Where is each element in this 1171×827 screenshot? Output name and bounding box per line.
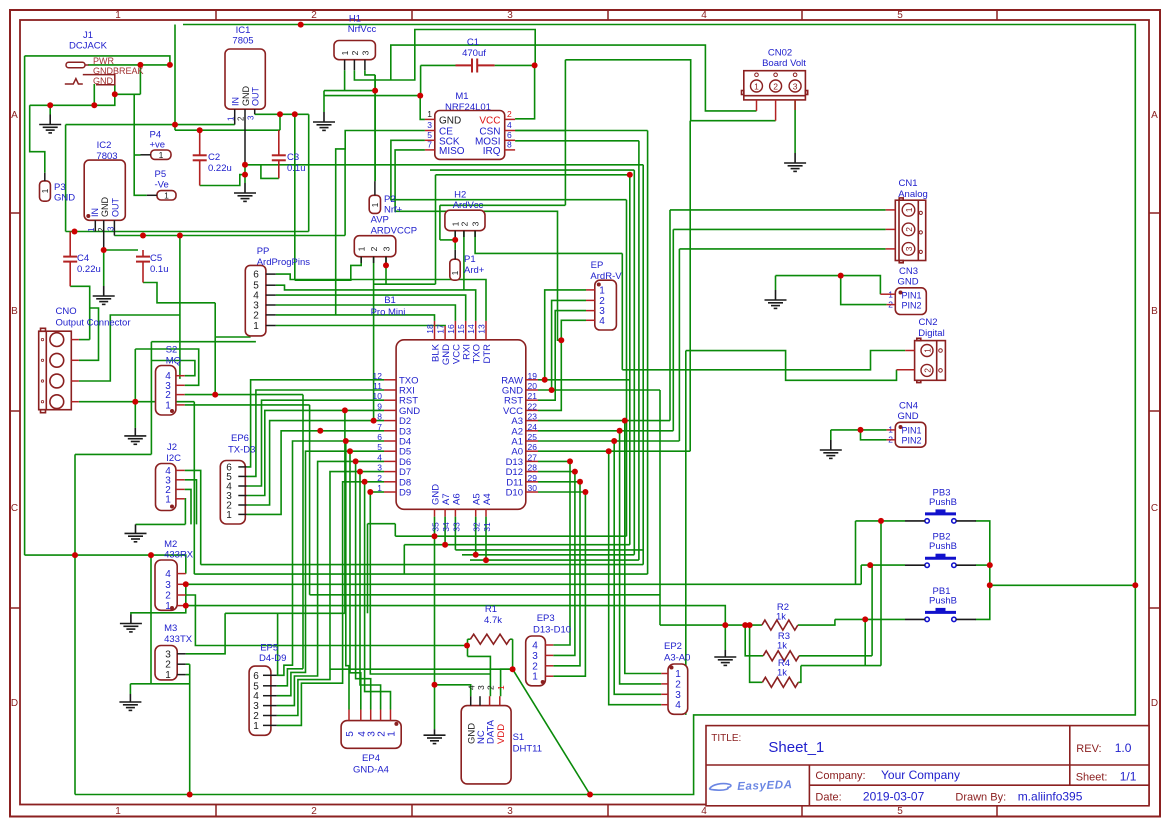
wire D9 line xyxy=(370,491,384,493)
svg-text:Your Company: Your Company xyxy=(881,768,960,782)
wire EP5 pin6 riser xyxy=(277,613,279,675)
wire PB2 left xyxy=(861,564,905,566)
svg-text:P1: P1 xyxy=(464,254,476,265)
wire vertical x=75 xyxy=(74,454,76,794)
module M2 body xyxy=(155,560,177,610)
H1 pin stubs xyxy=(344,60,346,70)
wire IC1 OUT net xyxy=(255,113,309,115)
svg-text:PWR: PWR xyxy=(93,56,114,66)
svg-text:EP5: EP5 xyxy=(260,643,278,654)
junction H1 L1 xyxy=(372,88,378,94)
svg-text:3: 3 xyxy=(507,10,513,21)
svg-text:EP6: EP6 xyxy=(231,433,249,444)
header PP body xyxy=(245,265,266,336)
wire MOSI vertical xyxy=(638,141,640,560)
wire C5 bottom run xyxy=(143,283,215,303)
svg-text:7: 7 xyxy=(377,422,382,432)
svg-text:2: 2 xyxy=(377,473,382,483)
wire S2 pin4 xyxy=(151,361,195,376)
wire C3 branch xyxy=(279,114,281,130)
wire gnd drop H1 xyxy=(323,91,325,112)
svg-text:AVP: AVP xyxy=(371,215,389,226)
svg-text:Digital: Digital xyxy=(918,328,944,339)
junction D10 xyxy=(582,489,588,495)
svg-text:A3-A0: A3-A0 xyxy=(664,653,690,664)
wire M2 gnd link xyxy=(131,606,186,615)
wire D10 to EP3 pin1 xyxy=(553,492,585,676)
svg-text:2: 2 xyxy=(350,50,360,55)
wire M1 CE net xyxy=(336,131,425,315)
junction P5 net xyxy=(112,91,118,97)
svg-text:7: 7 xyxy=(427,140,432,150)
svg-text:10: 10 xyxy=(373,391,383,401)
junction D2 AVP xyxy=(371,418,377,424)
wire IC2 out rail xyxy=(114,235,345,237)
svg-text:12: 12 xyxy=(373,371,383,381)
wire CN4 gnd drop xyxy=(830,430,832,440)
svg-text:4: 4 xyxy=(377,452,382,462)
junction y175 xyxy=(627,172,633,178)
svg-text:GND: GND xyxy=(431,484,442,505)
svg-text:C2: C2 xyxy=(208,152,220,163)
wire CSN vertical2 xyxy=(647,131,649,575)
wire M3 pin2 xyxy=(186,663,190,665)
junction PB bus1 xyxy=(987,562,993,568)
wire R4 left xyxy=(750,625,763,682)
wire D9 to S1 DATA xyxy=(370,492,490,674)
junction M2 pin3 xyxy=(183,581,189,587)
pin P2 body xyxy=(369,195,380,213)
wire x367 drop xyxy=(367,524,369,614)
wire PB2 right xyxy=(976,564,990,566)
wire A0 to EP2 pin4 xyxy=(609,451,662,705)
svg-text:3: 3 xyxy=(675,690,681,701)
svg-text:A4: A4 xyxy=(482,493,493,505)
svg-text:21: 21 xyxy=(528,391,538,401)
resistor R4 symbol xyxy=(762,677,798,687)
svg-text:H2: H2 xyxy=(454,190,466,201)
wire CN1 pin2 vertical xyxy=(672,229,674,430)
svg-text:0.1u: 0.1u xyxy=(287,163,306,174)
wire VCC22 to EP pin4 xyxy=(538,320,586,410)
wire D7 to EP5 pin2 xyxy=(277,472,384,716)
svg-text:32: 32 xyxy=(472,522,482,532)
header EP4 body xyxy=(341,721,401,749)
junction R1 left xyxy=(464,643,470,649)
wire CNO pin1 xyxy=(79,339,90,341)
wire y=170 run xyxy=(430,169,634,171)
svg-text:A: A xyxy=(1151,110,1158,121)
wire C1 right xyxy=(495,64,535,66)
svg-text:GND: GND xyxy=(897,277,918,288)
connector CN3 body xyxy=(895,288,926,315)
wire H2 pin2 down xyxy=(463,231,465,290)
CN02 pin 3 xyxy=(789,80,801,92)
svg-text:H1: H1 xyxy=(349,14,361,25)
svg-text:3: 3 xyxy=(246,115,255,120)
wire R1 left lead xyxy=(468,638,471,640)
svg-text:3: 3 xyxy=(532,651,538,662)
pin P5 body xyxy=(157,191,176,200)
svg-text:1: 1 xyxy=(496,685,506,690)
junction T1 x151 xyxy=(148,552,154,558)
IC1 pin stubs xyxy=(234,109,236,124)
svg-text:23: 23 xyxy=(528,412,538,422)
wire RST21 to EP pin3 xyxy=(538,311,586,401)
wire gnd run xyxy=(30,94,115,105)
connector CN4 body xyxy=(895,422,926,447)
svg-text:34: 34 xyxy=(441,522,451,532)
wire R1 right lead xyxy=(510,638,513,640)
wire R2 right to PB1 xyxy=(798,619,835,625)
wire y=524 link xyxy=(368,523,396,525)
svg-text:5: 5 xyxy=(427,130,432,140)
B1 bottom pin stubs xyxy=(434,509,436,516)
svg-text:1: 1 xyxy=(427,109,432,119)
svg-text:C: C xyxy=(11,503,18,514)
junction GND20 xyxy=(549,387,555,393)
junction pin35 xyxy=(432,533,438,539)
svg-text:1: 1 xyxy=(253,321,259,332)
svg-text:7805: 7805 xyxy=(232,36,253,47)
junction pin31 xyxy=(483,557,489,563)
svg-text:B: B xyxy=(11,306,18,317)
svg-text:ARDVCCP: ARDVCCP xyxy=(371,226,417,237)
wire C2 bottom loop xyxy=(200,175,245,186)
wire D13 net xyxy=(538,460,570,462)
svg-text:C3: C3 xyxy=(287,152,299,163)
wire D8 to EP4 pin1 xyxy=(365,482,391,710)
svg-text:2019-03-07: 2019-03-07 xyxy=(863,790,925,804)
junction CNO pin4 xyxy=(132,399,138,405)
wire D11 to EP3 pin2 xyxy=(553,482,580,666)
ground J2 xyxy=(125,524,147,541)
wire gnd stub tap xyxy=(49,105,51,114)
wire jog x395 xyxy=(394,524,396,537)
ground CN4 xyxy=(820,440,842,458)
svg-text:6: 6 xyxy=(253,270,259,281)
svg-text:VDD: VDD xyxy=(496,724,507,744)
wire to M1 pin1 xyxy=(420,96,425,120)
wire CN1 pin1 vertical xyxy=(669,210,671,421)
regulator IC1 body xyxy=(225,49,265,109)
junction CN4 xyxy=(858,427,864,433)
wire PP pin6 to B1 pin13 xyxy=(276,274,486,321)
CN2 pin 1 xyxy=(921,345,933,357)
wire R1 right drop xyxy=(512,639,514,669)
svg-text:ArdVcc: ArdVcc xyxy=(453,200,484,211)
wire AVP pin2 column xyxy=(373,257,375,421)
junction D6 xyxy=(353,458,359,464)
junction C5 top xyxy=(101,247,107,253)
svg-text:CN4: CN4 xyxy=(899,401,918,412)
module M1 body xyxy=(435,111,505,160)
wire M3 pin1 xyxy=(186,674,190,676)
svg-text:1: 1 xyxy=(532,672,538,683)
wire PB1 branch to R4 xyxy=(864,619,866,665)
wire CSN vertical xyxy=(564,60,566,206)
svg-text:C5: C5 xyxy=(150,253,162,264)
svg-text:4: 4 xyxy=(701,10,707,21)
wire M1 MOSI out xyxy=(515,140,639,142)
wire PP pin5 to B1 pin14 xyxy=(276,285,476,321)
wire Nrf vertical to P2 xyxy=(374,75,376,181)
svg-text:2: 2 xyxy=(904,227,914,232)
wire pin35 crossrun xyxy=(395,535,626,537)
svg-text:25: 25 xyxy=(528,432,538,442)
wire PWR down xyxy=(139,65,141,94)
regulator IC2 body xyxy=(84,160,125,220)
junction GND9 xyxy=(342,407,348,413)
wire PB3 branch down xyxy=(880,521,882,666)
svg-text:4: 4 xyxy=(507,120,512,130)
wire CNO pin4 riser xyxy=(193,402,195,574)
svg-text:470uf: 470uf xyxy=(462,48,486,59)
wire pin31 drop xyxy=(485,517,487,561)
svg-text:D: D xyxy=(11,698,18,709)
junction PB2 xyxy=(867,562,873,568)
wire x404 drop xyxy=(403,545,405,574)
svg-text:EP3: EP3 xyxy=(537,613,555,624)
svg-text:3: 3 xyxy=(427,120,432,130)
svg-text:IC2: IC2 xyxy=(97,140,112,151)
wire A3 to EP2 pin1 xyxy=(625,421,662,674)
connector CNO body xyxy=(39,328,72,412)
svg-text:C1: C1 xyxy=(467,37,479,48)
wire J2 pin3 xyxy=(185,480,197,525)
svg-text:C4: C4 xyxy=(77,253,89,264)
svg-text:1: 1 xyxy=(226,116,235,121)
junction D12 xyxy=(572,469,578,475)
svg-text:M3: M3 xyxy=(164,623,177,634)
svg-text:IC1: IC1 xyxy=(236,25,251,36)
svg-text:1: 1 xyxy=(450,270,460,275)
svg-text:A6: A6 xyxy=(451,493,462,505)
wire trunk M3 pin3 net xyxy=(225,612,345,614)
junction A3 xyxy=(622,418,628,424)
svg-text:GND-A4: GND-A4 xyxy=(353,765,389,776)
junction rail xyxy=(177,233,183,239)
svg-text:EP: EP xyxy=(591,260,604,271)
junction PB3 xyxy=(878,518,884,524)
svg-text:Ard+: Ard+ xyxy=(464,265,485,276)
svg-text:33: 33 xyxy=(451,522,461,532)
pin P1 body xyxy=(450,259,460,280)
svg-text:2: 2 xyxy=(253,310,259,321)
wire CNO pin3 xyxy=(79,315,180,381)
CNO pin 2 circle xyxy=(50,353,64,367)
svg-text:IN: IN xyxy=(90,208,100,217)
svg-text:B: B xyxy=(1151,306,1158,317)
svg-text:PP: PP xyxy=(257,246,270,257)
ground M3 xyxy=(119,694,141,710)
svg-text:4: 4 xyxy=(165,569,171,580)
svg-text:TX-D3: TX-D3 xyxy=(228,445,255,456)
svg-text:1: 1 xyxy=(370,202,380,207)
wire y=560 link xyxy=(470,559,639,561)
wire trunk J2 pin4 net xyxy=(201,564,644,566)
wire to CN2 drop xyxy=(621,253,623,369)
junction OUT2 xyxy=(292,111,298,117)
wire S2 pin2 vertical xyxy=(302,395,304,669)
capacitor C5 symbol xyxy=(136,257,150,262)
ground S2 xyxy=(124,428,146,444)
resistor R3 symbol xyxy=(763,651,799,661)
svg-text:PushB: PushB xyxy=(929,595,957,606)
wire P2 column xyxy=(374,75,376,181)
svg-text:2: 2 xyxy=(97,227,106,232)
svg-text:1: 1 xyxy=(165,601,171,612)
wire y=550 link xyxy=(455,549,643,551)
CN1 pin 2 xyxy=(902,223,915,236)
wire VCC to M1 pin2 xyxy=(515,65,535,118)
svg-text:OUT: OUT xyxy=(110,198,120,218)
wire pin33 drop xyxy=(454,517,456,550)
wire CNO pin4 xyxy=(79,401,194,403)
wire y=669 to R1 right xyxy=(330,668,513,670)
junction D8 xyxy=(362,479,368,485)
wire CN3 pin1 net xyxy=(776,276,881,295)
ground H1 xyxy=(313,112,335,130)
junction rail C5 xyxy=(140,233,146,239)
svg-text:EasyEDA: EasyEDA xyxy=(737,779,793,793)
wire W2 rail xyxy=(175,129,280,131)
svg-text:28: 28 xyxy=(528,463,538,473)
ground IC1 xyxy=(234,183,256,201)
CNO pin 4 circle xyxy=(50,395,64,409)
wire CN4 pin2 net xyxy=(861,430,887,440)
wire H1 pin2 to C1 right xyxy=(354,30,535,81)
capacitor C4 symbol xyxy=(63,257,77,262)
svg-text:MISO: MISO xyxy=(439,146,465,157)
wire M3 pin3 riser xyxy=(186,613,225,654)
ground J1 xyxy=(39,115,61,133)
wire vertical x=180 xyxy=(179,236,181,379)
CN1 pin 3 xyxy=(902,243,915,256)
capacitor C1 symbol xyxy=(456,59,495,73)
wire M1 SCK net xyxy=(391,140,627,199)
wire PP pin4 to B1 pin15 xyxy=(276,295,466,321)
junction OUT1 xyxy=(277,111,283,117)
wire AVP pin3 xyxy=(385,257,387,285)
svg-text:+ve: +ve xyxy=(150,140,166,151)
module M3 body xyxy=(155,646,177,680)
wire H1 pin3 jog xyxy=(365,70,375,75)
wire R2 left xyxy=(660,624,762,626)
svg-text:6: 6 xyxy=(507,130,512,140)
wire B1 pin11 to EP6 pin5 xyxy=(247,390,384,476)
junction S2 pin2 xyxy=(212,392,218,398)
wire J2 pin1 xyxy=(184,499,187,525)
wire y=205 run xyxy=(440,204,566,206)
junction PWR xyxy=(137,62,143,68)
svg-text:CN1: CN1 xyxy=(898,178,917,189)
H2 pin stubs xyxy=(454,231,456,237)
svg-text:GNDBREAK: GNDBREAK xyxy=(93,66,144,76)
B1 right pin stubs xyxy=(526,379,538,381)
ground CN02 xyxy=(784,153,806,171)
pin P3 body xyxy=(40,181,51,201)
wire GND to EP pin2 xyxy=(552,300,586,390)
junction RAW xyxy=(542,377,548,383)
junction H2 pin1 xyxy=(452,237,458,243)
svg-text:Sheet_1: Sheet_1 xyxy=(768,739,824,756)
wire PB to right rail xyxy=(990,584,1136,586)
wire A0 net xyxy=(538,450,690,452)
svg-text:P2: P2 xyxy=(384,194,396,205)
wire R3 left xyxy=(745,625,763,656)
svg-text:CN2: CN2 xyxy=(918,317,937,328)
ground M2 xyxy=(120,615,142,632)
junction C2 loop xyxy=(242,172,248,178)
svg-text:24: 24 xyxy=(528,422,538,432)
wire vertical x=630 xyxy=(629,175,631,545)
svg-text:3: 3 xyxy=(471,221,481,226)
svg-text:CN02: CN02 xyxy=(768,48,792,59)
wire PP pin2 to B1 pin18 xyxy=(276,315,435,321)
svg-text:Pro Mini: Pro Mini xyxy=(371,307,406,318)
wire CN1 pin3 xyxy=(679,248,885,250)
svg-text:PIN2: PIN2 xyxy=(902,436,922,446)
svg-text:1: 1 xyxy=(115,806,121,817)
svg-text:PIN1: PIN1 xyxy=(902,426,922,436)
wire to P5 xyxy=(134,94,147,195)
wire stub col xyxy=(319,431,321,433)
svg-text:TITLE:: TITLE: xyxy=(711,733,741,744)
junction gnd run xyxy=(91,102,97,108)
wire PP pin1 to B1 pin17 xyxy=(276,325,445,328)
wire D4 to EP4 pin5 xyxy=(346,441,349,710)
wire to P3 xyxy=(30,105,45,173)
wire D5 to EP4 pin4 xyxy=(350,451,361,709)
sensor S1 body xyxy=(461,706,511,784)
wire R1 to S1 DATA xyxy=(468,656,491,696)
wire pin34 crossrun xyxy=(404,544,630,546)
svg-text:1: 1 xyxy=(253,721,259,732)
junction R4 tap xyxy=(747,622,753,628)
wire AVP riser xyxy=(435,175,437,284)
wire PB3 left xyxy=(856,520,906,522)
svg-text:Company:: Company: xyxy=(815,770,865,782)
svg-text:3: 3 xyxy=(377,463,382,473)
svg-text:5: 5 xyxy=(345,731,356,737)
junction A1 xyxy=(611,438,617,444)
wire H1 pin1 drop xyxy=(344,70,346,90)
svg-text:3: 3 xyxy=(107,226,116,231)
wire J2 pin4 xyxy=(185,470,201,564)
wire CN3 gnd drop xyxy=(775,276,777,290)
svg-text:D9: D9 xyxy=(399,488,411,499)
resistor R1 symbol xyxy=(470,634,510,644)
svg-text:1: 1 xyxy=(599,285,605,296)
junction W1 xyxy=(172,122,178,128)
svg-text:PIN1: PIN1 xyxy=(902,291,922,301)
svg-text:15: 15 xyxy=(456,324,466,334)
svg-text:D10: D10 xyxy=(506,488,523,499)
wire D8 to EP5 pin1 xyxy=(277,482,384,726)
junction pin32 xyxy=(473,552,479,558)
svg-text:C: C xyxy=(1151,503,1158,514)
svg-text:35: 35 xyxy=(431,522,441,532)
svg-text:2: 2 xyxy=(165,660,171,671)
svg-text:26: 26 xyxy=(528,442,538,452)
wire M2 pin3-pin1 tie xyxy=(185,584,187,605)
wire CN1 pin2 xyxy=(673,228,885,230)
wire C1 left down xyxy=(420,65,422,95)
svg-text:4.7k: 4.7k xyxy=(484,615,502,626)
svg-text:1: 1 xyxy=(165,494,171,505)
wire CN3 pin2 net xyxy=(841,276,887,305)
